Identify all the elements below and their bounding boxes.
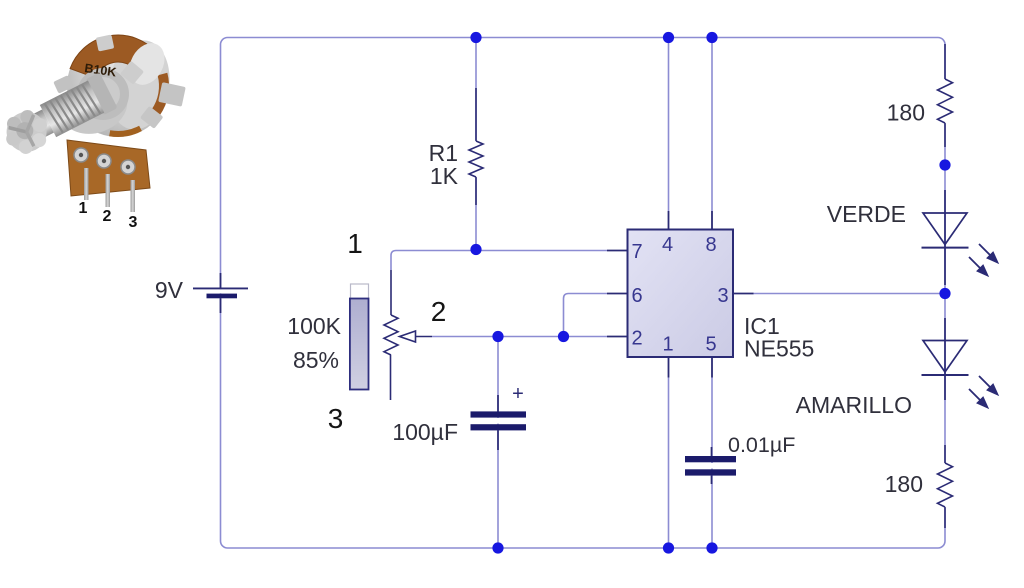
erase wire in C2 plate gap (707, 463, 717, 469)
wire: C1 branch (wiper net down to bottom rail) (497, 337, 499, 549)
pot photo: right mounting tab (158, 82, 186, 107)
junction: wiper net / C1 branch (492, 331, 503, 342)
junction: right rail R2 / LED D1 (939, 159, 950, 170)
pot photo: eyelet 2 (97, 154, 111, 168)
svg-text:180: 180 (887, 100, 925, 126)
potentiometer symbol VR1 (zigzag body, leads, wiper arrow) (384, 270, 432, 400)
pot photo: eyelet 3 (121, 160, 135, 174)
erase wire behind battery plate gap (214, 289, 227, 293)
pot photo: front plate below shaft (54, 72, 135, 142)
wire: net pin1 (IC pin 1 down to bottom rail) (668, 378, 670, 549)
potentiometer symbol VR1 (slider bar gauge) (350, 284, 369, 390)
svg-text:3: 3 (717, 285, 728, 307)
LED D1 light arrows (976, 241, 1000, 265)
svg-text:1K: 1K (430, 163, 459, 189)
pot photo: top crimp tab (96, 34, 115, 51)
svg-text:9V: 9V (155, 277, 184, 303)
junction: bottom rail / pin1 (663, 542, 674, 553)
svg-text:1: 1 (79, 200, 88, 217)
resistor R1 1K (leads and zigzag) (469, 88, 483, 205)
wire: net pin5 (IC pin 5 through C2 to bottom rail) (711, 378, 713, 549)
svg-text:NE555: NE555 (744, 336, 814, 362)
pot photo: leg 2 (106, 174, 111, 207)
pot photo: leg 1 (84, 168, 89, 200)
pot photo: lower-right crimp tab (140, 106, 163, 129)
resistor R2 180 (top right) (938, 44, 953, 147)
junction: top rail / pin8 (706, 32, 717, 43)
pot photo: leg 3 (131, 180, 136, 212)
pot photo: metal can disc (67, 35, 169, 137)
svg-text:VERDE: VERDE (827, 201, 906, 227)
pot photo: orange rim patch right (152, 73, 169, 116)
svg-text:4: 4 (662, 234, 673, 256)
svg-text:3: 3 (328, 403, 344, 434)
svg-text:AMARILLO: AMARILLO (796, 392, 912, 418)
LED D2 light arrows (976, 373, 1000, 397)
pot photo: can dome right half (102, 35, 177, 134)
LED D2 AMARILLO (922, 318, 969, 400)
pot photo: eyelet 1 (74, 148, 88, 162)
junction: top rail / pin4 (663, 32, 674, 43)
potentiometer photo (B10K) (0, 34, 186, 231)
erase wire behind 180 resistor R3 body (941, 463, 949, 509)
capacitor C1 100uF (electrolytic) (471, 395, 527, 450)
battery B1 9V (193, 273, 248, 313)
pot photo: knurled bushing base (77, 68, 129, 120)
LED D1 VERDE (922, 190, 969, 285)
svg-text:1: 1 (347, 228, 363, 259)
svg-text:+: + (512, 383, 524, 405)
svg-text:7: 7 (631, 241, 642, 263)
pot photo: crimp tab upper right (120, 61, 144, 85)
svg-text:2: 2 (631, 328, 642, 350)
pot photo: orange rim patch bottom (109, 126, 142, 137)
junction: right rail pin3 / LEDs (939, 288, 950, 299)
junction: top rail / R1 (470, 32, 481, 43)
wire: outer power loop (top rail, right rail, bottom rail, left rail) (221, 38, 946, 549)
wire: net pin8 (top rail down to IC pin 8) (711, 38, 713, 212)
pot photo: dome highlight (123, 37, 172, 91)
junction: bottom rail / pin5 (706, 542, 717, 553)
wire: net pin6 branch (pin2 net up to IC pin 6) (564, 294, 608, 337)
wire: R1 branch (top rail to pin7 node) (475, 38, 477, 250)
svg-text:8: 8 (705, 234, 716, 256)
wire: net pin2 (pot wiper to IC pin 2) (432, 336, 607, 338)
svg-text:1: 1 (662, 334, 673, 356)
pot photo: terminal board (67, 140, 150, 196)
svg-text:85%: 85% (293, 347, 339, 373)
pot photo: left crimp tab (53, 75, 73, 94)
wire: net pin3 (IC pin 3 to LED junction on right rail) (753, 293, 945, 295)
junction: bottom rail / C1 (492, 542, 503, 553)
resistor R3 180 (bottom right) (938, 445, 953, 528)
capacitor C2 0.01uF (685, 447, 736, 484)
junction: R1 / pin7 net (470, 244, 481, 255)
erase wire behind 180 resistor R2 body (941, 79, 949, 125)
pot photo: lower-left crimp tab (51, 97, 71, 117)
IC U1 NE555 (body) (628, 230, 734, 358)
erase wire behind R1 body (472, 140, 480, 178)
svg-text:6: 6 (631, 285, 642, 307)
svg-text:3: 3 (129, 214, 138, 231)
erase wire in C1 plate gap (493, 418, 503, 424)
pot photo: shaft assembly (0, 72, 118, 159)
svg-text:100µF: 100µF (392, 419, 458, 445)
svg-text:0.01µF: 0.01µF (728, 433, 795, 457)
svg-text:2: 2 (431, 296, 447, 327)
svg-text:5: 5 (705, 334, 716, 356)
svg-text:100K: 100K (287, 313, 341, 339)
junction: wiper net / pin6 branch (558, 331, 569, 342)
wire: net pin4 (top rail down to IC pin 4) (668, 38, 670, 212)
IC pin stubs (607, 211, 754, 378)
svg-text:180: 180 (885, 471, 923, 497)
pot photo: orange PCB crescent (70, 35, 156, 78)
wire: net pin7 (pot terminal 1 to IC pin 7) (391, 251, 607, 271)
svg-text:2: 2 (103, 208, 112, 225)
